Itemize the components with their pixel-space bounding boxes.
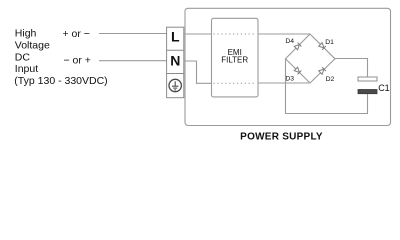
svg-text:Voltage: Voltage bbox=[15, 40, 50, 52]
wire: dotted L path through EMI filter bbox=[214, 33, 257, 35]
svg-text:DC: DC bbox=[15, 52, 31, 64]
svg-text:− or +: − or + bbox=[64, 55, 91, 67]
wire: L from terminal block to EMI filter bbox=[184, 33, 212, 35]
svg-text:D1: D1 bbox=[325, 39, 334, 46]
svg-text:D2: D2 bbox=[326, 76, 335, 83]
wire: dotted N path through EMI filter bbox=[214, 82, 257, 84]
EMI filter box bbox=[212, 18, 259, 97]
wire: EMI filter bottom output to bridge bottom vertex bbox=[258, 82, 309, 84]
svg-text:POWER SUPPLY: POWER SUPPLY bbox=[240, 131, 323, 142]
svg-text:+ or −: + or − bbox=[63, 28, 90, 40]
terminal block cell divider 2 bbox=[167, 73, 184, 75]
wire: EMI filter top output to bridge top vertex bbox=[258, 33, 310, 35]
wire: N from terminal block, step down to EMI filter bbox=[184, 61, 212, 83]
protective earth ground symbol bbox=[169, 79, 181, 91]
diode D4 bbox=[294, 43, 301, 50]
wire: bridge negative output, left vertex down and bottom rail to capacitor bbox=[286, 59, 368, 114]
diode D3 bbox=[294, 67, 301, 74]
wire: bridge positive output, right vertex to capacitor top bbox=[335, 59, 368, 78]
diode D1 bbox=[319, 43, 326, 50]
svg-text:(Typ 130 - 330VDC): (Typ 130 - 330VDC) bbox=[14, 75, 107, 87]
diode D2 bbox=[319, 67, 326, 74]
svg-text:High: High bbox=[15, 27, 37, 39]
wire: L input from source to terminal L bbox=[99, 33, 167, 35]
svg-text:FILTER: FILTER bbox=[221, 55, 248, 64]
svg-text:L: L bbox=[171, 29, 180, 45]
wire: N input from source to terminal N bbox=[99, 60, 167, 62]
svg-text:D4: D4 bbox=[285, 38, 294, 45]
svg-text:C1: C1 bbox=[378, 83, 390, 93]
svg-text:D3: D3 bbox=[285, 76, 294, 83]
svg-text:N: N bbox=[170, 53, 180, 69]
bridge rectifier diamond bbox=[286, 34, 336, 83]
label: High Voltage DC Input text bbox=[14, 27, 107, 86]
capacitor C1 top plate bbox=[358, 77, 377, 81]
capacitor C1 bottom plate bbox=[358, 90, 377, 94]
power supply enclosure box bbox=[185, 8, 391, 125]
terminal block cell divider 1 bbox=[167, 49, 184, 51]
svg-text:Input: Input bbox=[15, 63, 38, 75]
label: EMI FILTER bbox=[221, 48, 248, 64]
terminal block outline bbox=[167, 27, 184, 98]
